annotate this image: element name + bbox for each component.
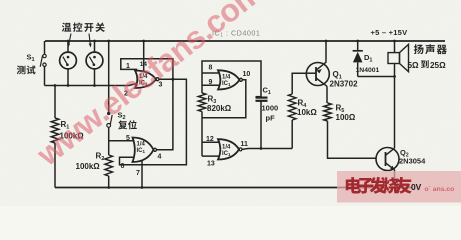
- label R1: [61, 120, 70, 131]
- pin 14 lead to rail: [143, 41, 145, 71]
- watermark pink band bottom right: [337, 171, 461, 203]
- wire D1 bottom to speaker bottom: [358, 76, 395, 78]
- paper texture noise overlay: [0, 0, 1, 1]
- label pin 2: [124, 91, 128, 98]
- op gate U1a 1/4 IC1: [135, 71, 159, 89]
- op gate U1b 1/4 IC1: [133, 138, 157, 163]
- label 1/4 IC1 inside gate U1d: [222, 144, 231, 157]
- resistor R4: [288, 73, 306, 148]
- label pin 3: [159, 82, 163, 89]
- label 0V redraw over band: [411, 182, 422, 192]
- speaker LS1: [388, 41, 409, 77]
- wire pin7 to 0V rail: [141, 161, 143, 188]
- op gate U1c 1/4 IC1: [218, 70, 242, 89]
- wire gate U1a output pin3 to U1b pin6: [120, 79, 187, 164]
- wire pin8 stub: [202, 72, 219, 74]
- label 温控开关 (thermostat switches): [62, 22, 105, 31]
- label D1: [364, 53, 372, 64]
- wire pin9 stub: [202, 84, 219, 86]
- transistor Q2 2N3054: [376, 148, 399, 188]
- label R2 value 100k: [76, 162, 101, 171]
- label Q1: [333, 70, 342, 81]
- wire U1b output pin4 feedback to U1a pin1: [121, 59, 173, 150]
- label 0V: [411, 182, 422, 192]
- op gate U1d 1/4 IC1: [218, 139, 242, 159]
- junction dot Q1 emitter rail: [325, 40, 328, 43]
- label R1 value 100k: [60, 132, 85, 141]
- wire pin10 to R3 bottom: [202, 80, 246, 118]
- label 测试 (test): [17, 66, 36, 75]
- label pin 4: [158, 154, 162, 161]
- label supply +5 - +15V: [371, 28, 409, 37]
- switch S2 (reset): [107, 112, 112, 155]
- label pin 6: [121, 163, 125, 170]
- label pin 11: [241, 141, 249, 148]
- label R5: [336, 104, 345, 115]
- label pin 14: [140, 61, 148, 68]
- label C1: [263, 86, 271, 97]
- label R4 value 10k: [297, 108, 317, 117]
- label 1/4 IC1 inside gate U1a: [139, 74, 148, 87]
- junction dot speaker top rail: [393, 40, 396, 43]
- label R3 value 820k: [207, 104, 232, 113]
- label IC1 CD4001: [212, 29, 260, 39]
- label speaker impedance 5Ω到25Ω: [408, 60, 447, 70]
- label pin 5: [126, 135, 130, 142]
- label 1/4 IC1 inside gate U1c: [222, 74, 231, 87]
- junction dot rail S2 branch: [107, 40, 110, 43]
- label 复位 (reset): [118, 120, 137, 129]
- label R3: [208, 95, 217, 106]
- label S2: [118, 111, 126, 122]
- junction dot pin14 rail: [142, 40, 145, 43]
- label 1/4 IC1 inside gate U1b: [137, 142, 146, 155]
- label R2: [96, 152, 105, 163]
- wire down to U1d inputs: [201, 118, 203, 156]
- watermark 电子发烧友 logo text: [346, 177, 412, 194]
- label pin 1: [126, 63, 130, 70]
- resistor R3: [198, 93, 206, 118]
- label pin 7: [136, 170, 140, 177]
- junction dot TH2 top rail: [93, 40, 96, 43]
- watermark diagonal www.elecfans.com: [29, 0, 269, 173]
- resistor R2: [105, 155, 113, 188]
- diode D1 1N4001: [353, 41, 363, 77]
- label pin 12: [206, 136, 214, 143]
- wire S2 branch from rail: [108, 41, 110, 112]
- thermal switch TH2: [86, 41, 103, 86]
- wire pin12 stub: [202, 141, 219, 143]
- wire U1d output pin11: [242, 148, 292, 151]
- wire pin5 stub from S2 node: [109, 140, 134, 142]
- junction dot R2 bottom rail: [107, 186, 110, 189]
- resistor R5: [324, 103, 376, 158]
- label pin 13: [207, 161, 215, 168]
- label pin 8: [209, 65, 213, 72]
- junction dot TH1 top rail: [67, 40, 70, 43]
- transistor Q1 2N3702: [306, 41, 329, 103]
- resistor R1: [51, 86, 59, 188]
- label C1 value 1000: [262, 104, 279, 113]
- label 扬声器 (speaker): [414, 44, 447, 54]
- label pin 10: [243, 71, 251, 78]
- junction dot C1 / pin11: [260, 147, 263, 150]
- junction dot node A / R1: [54, 84, 57, 87]
- label R4: [298, 99, 308, 110]
- arrow to left thermal switch: [67, 34, 71, 48]
- junction blob crossing: [171, 78, 174, 81]
- thermal switch TH1: [60, 41, 77, 86]
- junction dot speaker bottom: [393, 75, 396, 78]
- wire pin13 stub: [202, 155, 219, 157]
- wire Q2 collector up: [394, 77, 396, 149]
- label C1 value pF: [266, 114, 276, 123]
- capacitor C1: [256, 97, 268, 149]
- label R5 value 100: [336, 113, 356, 122]
- label Q2 type 2N3054: [399, 157, 426, 166]
- label Q2: [400, 148, 409, 159]
- junction dot D1 rail: [356, 40, 359, 43]
- wire C1 feedback top: [202, 61, 261, 97]
- label S1: [27, 53, 35, 64]
- wire bottom 0V rail: [55, 187, 412, 189]
- label pin 9: [209, 79, 213, 86]
- wire top supply rail: [45, 40, 445, 42]
- junction dot pin7 rail: [141, 186, 144, 189]
- wire node A horizontal: [45, 84, 137, 86]
- arrow to right thermal switch: [89, 34, 92, 48]
- junction dot node A / TH1: [67, 84, 70, 87]
- label D1 type 1N4001: [356, 67, 380, 74]
- junction dot node A / TH2: [93, 84, 96, 87]
- junction dot Q2 emitter rail: [393, 186, 396, 189]
- watermark small red url text: [425, 186, 455, 193]
- switch S1 (test): [40, 41, 46, 86]
- label Q1 type 2N3702: [330, 80, 359, 89]
